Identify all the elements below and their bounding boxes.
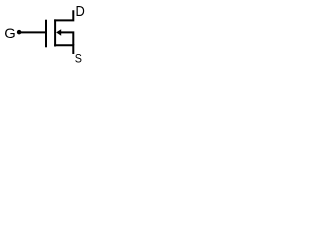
wire drain lead bbox=[54, 10, 73, 20]
gate terminal dot bbox=[17, 30, 22, 35]
body arrow (N-channel) bbox=[56, 29, 61, 36]
svg-text:D: D bbox=[76, 4, 85, 20]
wire source lead bbox=[54, 45, 73, 54]
wire body lead bbox=[60, 32, 73, 45]
svg-text:G: G bbox=[4, 25, 16, 41]
MOSFET gate bar bbox=[45, 20, 47, 48]
wire gate lead bbox=[21, 31, 47, 33]
MOSFET channel bar bbox=[54, 19, 56, 46]
svg-text:S: S bbox=[75, 52, 82, 66]
